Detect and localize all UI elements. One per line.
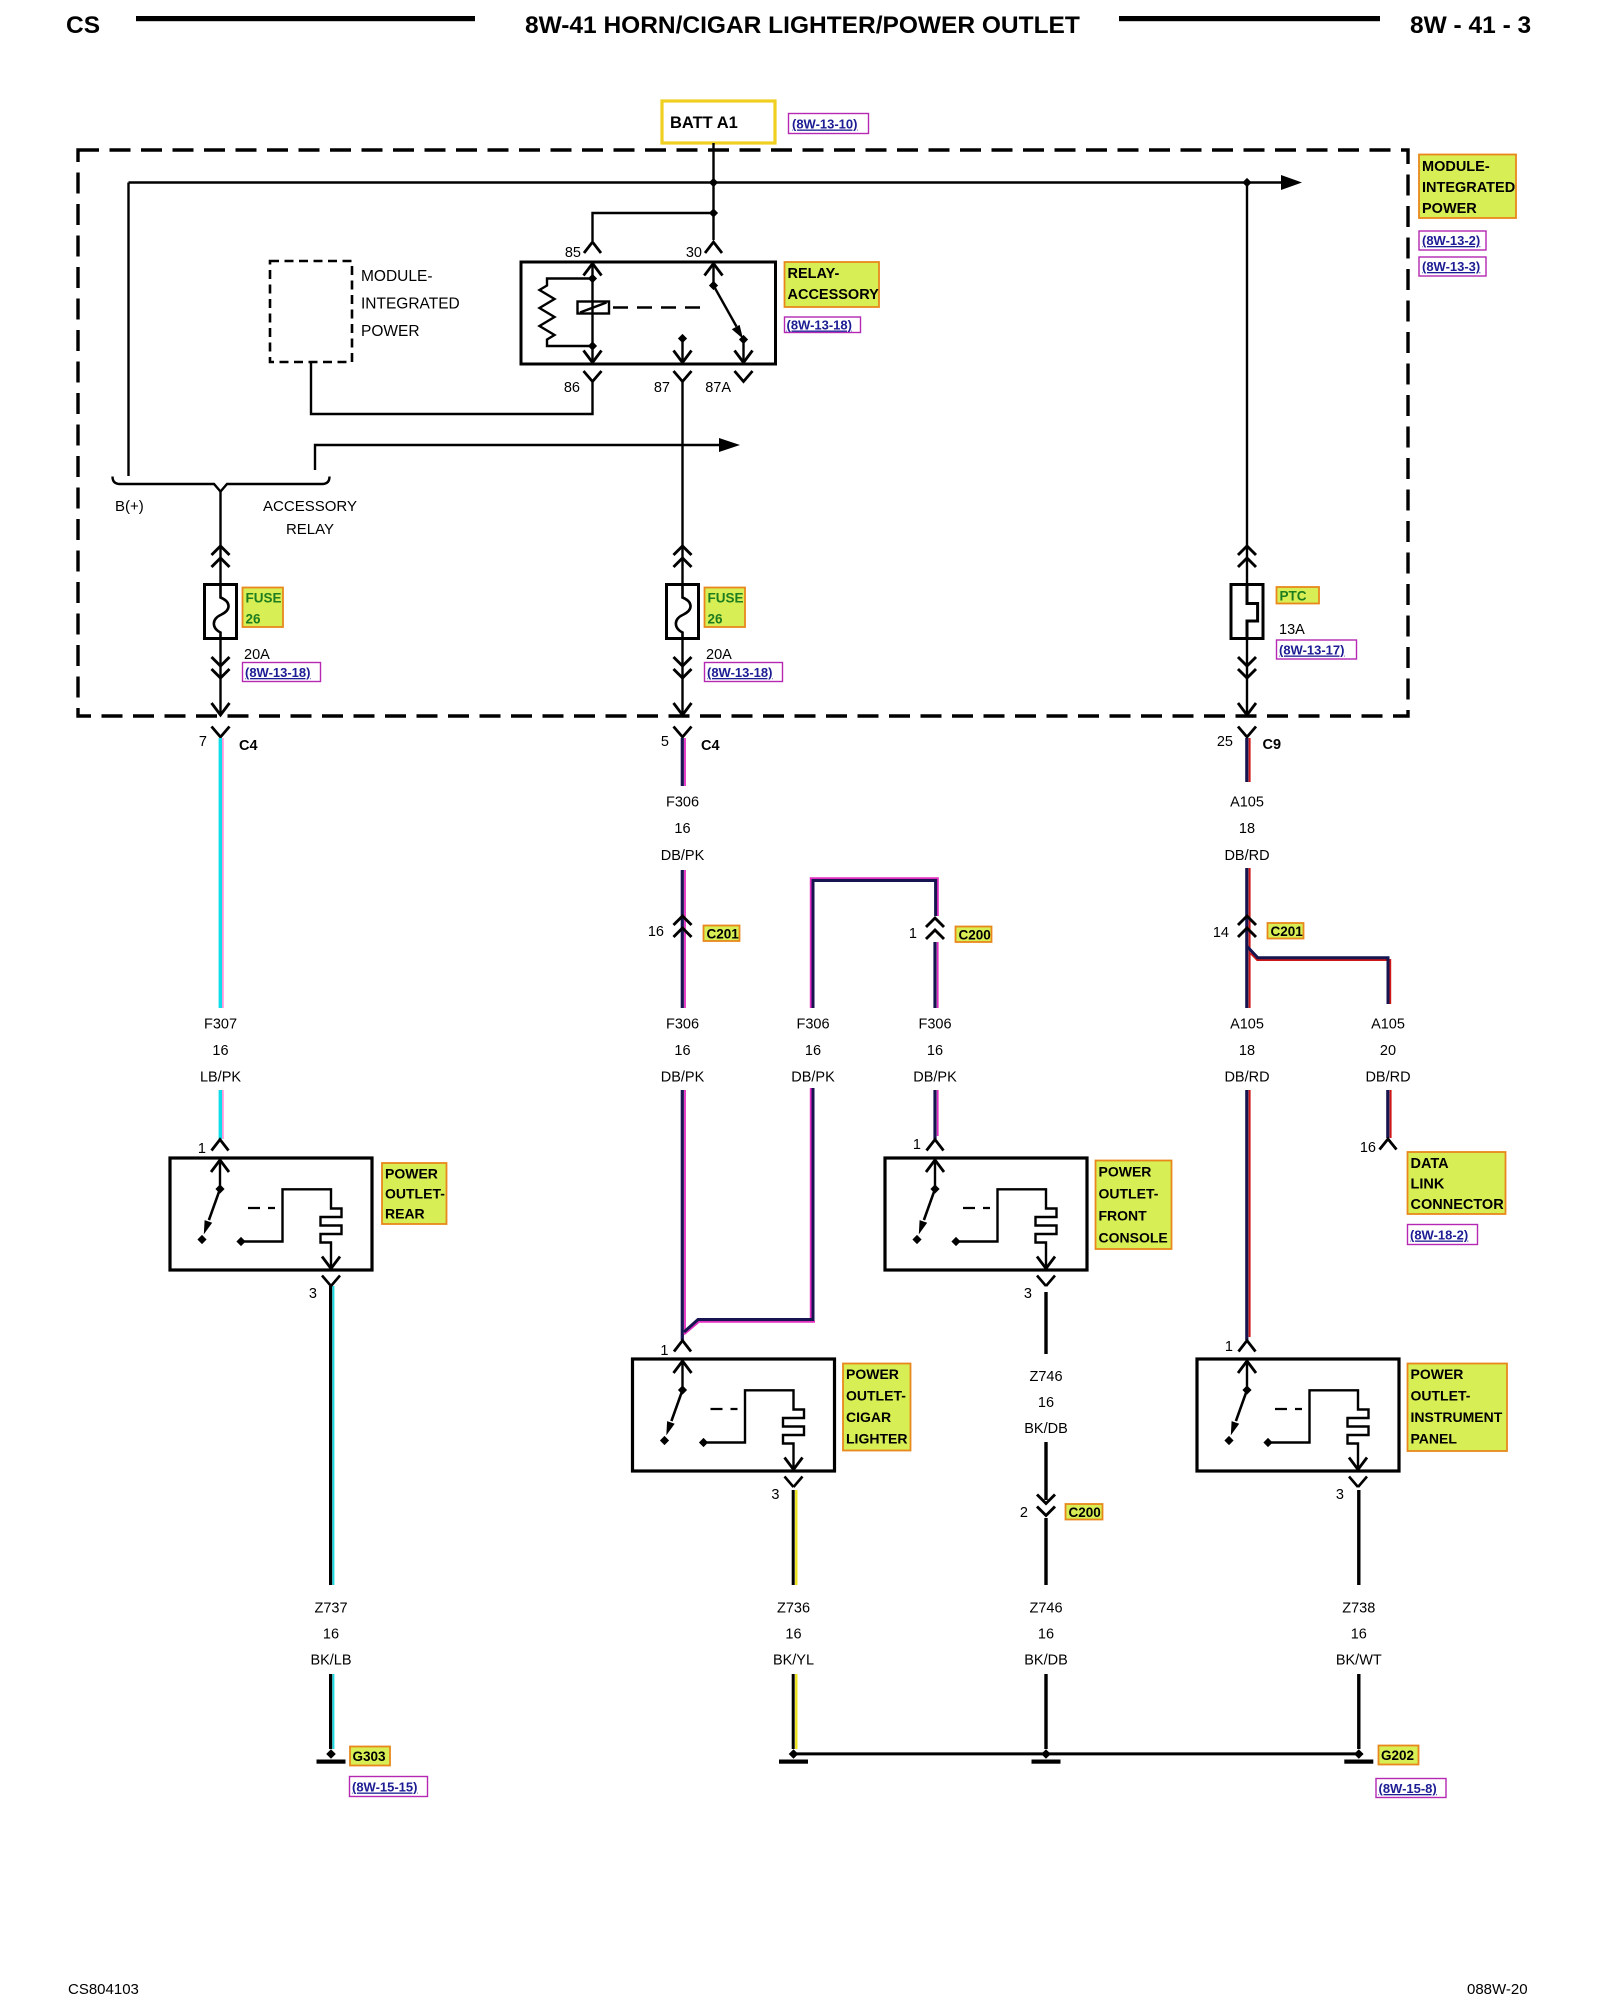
svg-text:16: 16 bbox=[674, 1043, 690, 1059]
svg-text:INTEGRATED: INTEGRATED bbox=[1422, 180, 1515, 196]
label FUSE 26 right bbox=[705, 588, 746, 628]
svg-text:LIGHTER: LIGHTER bbox=[846, 1431, 907, 1447]
svg-text:OUTLET-: OUTLET- bbox=[846, 1388, 906, 1404]
svg-text:BATT A1: BATT A1 bbox=[670, 114, 738, 132]
svg-text:86: 86 bbox=[564, 380, 580, 396]
relay pin 87 stub bbox=[678, 334, 687, 363]
svg-text:POWER: POWER bbox=[385, 1166, 438, 1182]
svg-text:POWER: POWER bbox=[1411, 1366, 1464, 1382]
connector pin 87 bbox=[654, 371, 692, 396]
svg-text:1: 1 bbox=[660, 1343, 668, 1359]
svg-text:(8W-13-18): (8W-13-18) bbox=[245, 665, 310, 680]
svg-text:C4: C4 bbox=[701, 738, 720, 754]
svg-text:RELAY: RELAY bbox=[286, 521, 334, 538]
relay coil resistor bbox=[540, 279, 593, 347]
svg-text:DATA: DATA bbox=[1411, 1156, 1450, 1172]
wire A105 DB/RD to instrument panel outlet bbox=[1247, 1090, 1250, 1340]
svg-text:16: 16 bbox=[1351, 1627, 1367, 1643]
svg-text:G202: G202 bbox=[1381, 1748, 1414, 1763]
svg-text:F306: F306 bbox=[918, 1017, 951, 1033]
svg-text:C200: C200 bbox=[1069, 1505, 1101, 1520]
label F307 16 LB/PK bbox=[200, 1017, 241, 1086]
label F306 16 DB/PK lower bbox=[661, 1017, 705, 1086]
link (8W-13-10) bbox=[789, 114, 869, 134]
wire branch to relay pin 85 bbox=[593, 213, 714, 241]
svg-text:G303: G303 bbox=[353, 1749, 387, 1764]
svg-text:Z738: Z738 bbox=[1342, 1601, 1375, 1617]
svg-text:LINK: LINK bbox=[1411, 1177, 1445, 1193]
brace B(+) / accessory relay bbox=[113, 477, 330, 492]
wire Z738 BK/WT lower bbox=[1357, 1674, 1360, 1749]
svg-text:13A: 13A bbox=[1279, 622, 1305, 638]
svg-text:FRONT: FRONT bbox=[1099, 1208, 1148, 1224]
connector in-line below PTC bbox=[1238, 657, 1256, 678]
wire Z746 BK/DB pin3 to label bbox=[1044, 1292, 1047, 1354]
svg-text:14: 14 bbox=[1213, 925, 1229, 941]
label Z746 16 BK/DB lower bbox=[1024, 1601, 1068, 1669]
label FUSE 26 left bbox=[243, 588, 284, 628]
label Z736 16 BK/YL bbox=[773, 1601, 814, 1669]
label MODULE-INTEGRATED POWER (inner) bbox=[361, 268, 460, 340]
module-integrated power boundary (dashed) bbox=[78, 150, 1408, 716]
svg-text:7: 7 bbox=[199, 734, 207, 750]
svg-text:1: 1 bbox=[1225, 1339, 1233, 1355]
power outlet front console bbox=[885, 1137, 1087, 1302]
connector in-line above PTC bbox=[1238, 546, 1256, 567]
svg-text:26: 26 bbox=[708, 612, 724, 627]
svg-text:8W-41 HORN/CIGAR LIGHTER/POWER: 8W-41 HORN/CIGAR LIGHTER/POWER OUTLET bbox=[525, 12, 1080, 39]
wire F307 LB/PK upper bbox=[220, 738, 223, 1008]
wire Z746 BK/DB lower2 bbox=[1044, 1674, 1047, 1749]
relay pin 86 exit arrow bbox=[584, 351, 602, 363]
relay pin 85 entry arrow bbox=[584, 264, 602, 363]
label POWER OUTLET-CIGAR LIGHTER bbox=[843, 1364, 911, 1451]
svg-text:FUSE: FUSE bbox=[708, 591, 744, 606]
relay pin 30 entry arrow bbox=[705, 264, 723, 286]
svg-text:(8W-13-17): (8W-13-17) bbox=[1279, 643, 1344, 658]
wire Z736 BK/YL lower bbox=[793, 1674, 796, 1749]
svg-text:3: 3 bbox=[1024, 1286, 1032, 1302]
svg-text:POWER: POWER bbox=[1422, 201, 1477, 217]
svg-text:PTC: PTC bbox=[1280, 589, 1307, 604]
relay coil junction top bbox=[588, 274, 597, 283]
svg-text:BK/DB: BK/DB bbox=[1024, 1653, 1068, 1669]
wire pin 87 down to fuse 26 bbox=[681, 382, 683, 585]
svg-text:25: 25 bbox=[1217, 734, 1233, 750]
svg-text:16: 16 bbox=[674, 821, 690, 837]
svg-text:1: 1 bbox=[913, 1137, 921, 1153]
wire B+ bus down to PTC bbox=[1246, 183, 1248, 585]
ground instrument panel G202 bbox=[1344, 1749, 1373, 1764]
svg-text:CS804103: CS804103 bbox=[68, 1981, 139, 1998]
svg-text:RELAY-: RELAY- bbox=[788, 266, 840, 282]
wire fuse right to connector C4 bbox=[674, 639, 692, 716]
svg-text:C4: C4 bbox=[239, 738, 258, 754]
power outlet rear bbox=[170, 1140, 372, 1303]
svg-text:(8W-13-3): (8W-13-3) bbox=[1422, 259, 1480, 274]
svg-text:CONNECTOR: CONNECTOR bbox=[1411, 1197, 1505, 1213]
label A105 18 DB/RD upper bbox=[1224, 795, 1269, 865]
svg-text:18: 18 bbox=[1239, 821, 1255, 837]
battery feed box BATT A1 bbox=[662, 101, 775, 143]
wire F306 DB/PK to cigar lighter bbox=[682, 1090, 685, 1340]
svg-text:C201: C201 bbox=[1271, 924, 1304, 939]
svg-text:(8W-13-10): (8W-13-10) bbox=[792, 117, 857, 132]
wire PTC to connector C9 bbox=[1238, 639, 1256, 716]
connector in-line below fuse 26 right bbox=[674, 657, 692, 678]
svg-text:A105: A105 bbox=[1371, 1017, 1405, 1033]
label POWER OUTLET-FRONT CONSOLE bbox=[1096, 1161, 1172, 1250]
svg-text:REAR: REAR bbox=[385, 1206, 425, 1222]
link (8W-13-2) bbox=[1419, 231, 1486, 250]
svg-text:87A: 87A bbox=[705, 380, 731, 396]
connector 7 C4 bbox=[199, 727, 258, 755]
label F306 16 DB/PK upper bbox=[661, 795, 705, 865]
relay RELAY-ACCESSORY box bbox=[521, 262, 776, 364]
fuse FUSE 26 left bbox=[205, 585, 237, 639]
svg-text:FUSE: FUSE bbox=[246, 591, 282, 606]
wire BATT A1 down to relay pin 30 bbox=[712, 143, 714, 240]
svg-text:DB/PK: DB/PK bbox=[791, 1070, 835, 1086]
svg-text:20A: 20A bbox=[706, 647, 732, 663]
connector 25 C9 bbox=[1217, 727, 1281, 754]
svg-text:ACCESSORY: ACCESSORY bbox=[788, 287, 880, 303]
svg-text:DB/PK: DB/PK bbox=[661, 1070, 705, 1086]
header rule left bbox=[136, 16, 475, 21]
connector pin 87A bbox=[705, 371, 752, 396]
svg-text:(8W-13-18): (8W-13-18) bbox=[707, 665, 772, 680]
label PTC bbox=[1277, 587, 1320, 604]
svg-text:20A: 20A bbox=[244, 647, 270, 663]
link (8W-15-8) bbox=[1376, 1779, 1446, 1798]
svg-text:INTEGRATED: INTEGRATED bbox=[361, 296, 460, 313]
node junction on B+ bus at x=713.5 bbox=[709, 178, 718, 187]
label DATA LINK CONNECTOR bbox=[1408, 1152, 1506, 1214]
module-integrated power inner dashed box bbox=[270, 261, 352, 362]
label MODULE-INTEGRATED POWER (right) bbox=[1419, 155, 1516, 219]
wire module box to pin 86 bbox=[311, 362, 593, 414]
svg-text:3: 3 bbox=[771, 1487, 779, 1503]
connector 1 C200 bbox=[909, 918, 992, 943]
svg-text:Z746: Z746 bbox=[1029, 1369, 1062, 1385]
relay pin 87 exit arrow bbox=[674, 351, 692, 363]
svg-text:BK/WT: BK/WT bbox=[1336, 1653, 1382, 1669]
wire branch cigar to front console bridge bbox=[684, 878, 938, 1334]
power outlet instrument panel bbox=[1197, 1339, 1399, 1503]
label G303 bbox=[350, 1747, 390, 1766]
svg-text:(8W-13-2): (8W-13-2) bbox=[1422, 233, 1480, 248]
label F306 16 DB/PK bridge right bbox=[913, 1017, 957, 1086]
connector 5 C4 bbox=[661, 727, 720, 755]
wire B+ bus horizontal with arrow bbox=[129, 175, 1303, 190]
svg-text:16: 16 bbox=[785, 1627, 801, 1643]
svg-text:F307: F307 bbox=[204, 1017, 237, 1033]
svg-text:3: 3 bbox=[1336, 1487, 1344, 1503]
svg-text:16: 16 bbox=[1360, 1140, 1376, 1156]
ground G303 bbox=[317, 1749, 346, 1764]
wire Z737 BK/LB lower bbox=[331, 1674, 334, 1749]
svg-text:16: 16 bbox=[927, 1043, 943, 1059]
svg-text:Z736: Z736 bbox=[777, 1601, 810, 1617]
relay coil box symbol bbox=[578, 302, 610, 314]
wire branch C201 to data link connector bbox=[1247, 947, 1390, 1005]
fuse FUSE 26 right bbox=[667, 585, 699, 639]
node junction on B+ bus at x=1247 bbox=[1242, 178, 1251, 187]
connector 2 C200 bbox=[1020, 1495, 1103, 1522]
svg-text:OUTLET-: OUTLET- bbox=[1099, 1186, 1159, 1202]
wire F306 DB/PK to front console bbox=[935, 942, 938, 1139]
link (8W-13-18) fuse left bbox=[243, 663, 321, 682]
link (8W-13-3) bbox=[1419, 257, 1486, 276]
svg-text:DB/PK: DB/PK bbox=[913, 1070, 957, 1086]
link (8W-15-15) bbox=[350, 1777, 428, 1797]
wire accessory relay output with arrow bbox=[315, 438, 740, 470]
svg-text:OUTLET-: OUTLET- bbox=[1411, 1388, 1471, 1404]
svg-text:C200: C200 bbox=[959, 928, 991, 943]
svg-text:CONSOLE: CONSOLE bbox=[1099, 1230, 1168, 1246]
connector pin 86 bbox=[564, 371, 602, 396]
label Z738 16 BK/WT bbox=[1336, 1601, 1382, 1669]
svg-text:B(+): B(+) bbox=[115, 498, 144, 515]
fuse PTC bbox=[1231, 585, 1263, 639]
svg-text:16: 16 bbox=[648, 924, 664, 940]
svg-text:BK/DB: BK/DB bbox=[1024, 1421, 1068, 1437]
wire F307 LB/PK lower bbox=[220, 1090, 223, 1139]
svg-text:CS: CS bbox=[66, 12, 100, 39]
svg-text:PANEL: PANEL bbox=[1411, 1431, 1458, 1447]
svg-text:2: 2 bbox=[1020, 1505, 1028, 1521]
link (8W-18-2) bbox=[1408, 1225, 1478, 1245]
svg-text:16: 16 bbox=[212, 1043, 228, 1059]
link (8W-13-17) bbox=[1277, 640, 1357, 659]
svg-text:(8W-15-15): (8W-15-15) bbox=[352, 1780, 417, 1795]
wire left B+ drop to accessory brace bbox=[127, 183, 129, 477]
svg-text:POWER: POWER bbox=[361, 323, 420, 340]
svg-text:DB/RD: DB/RD bbox=[1224, 848, 1269, 864]
svg-text:POWER: POWER bbox=[846, 1366, 899, 1382]
node junction at 30/85 branch bbox=[709, 208, 718, 217]
label Z746 16 BK/DB upper bbox=[1024, 1369, 1068, 1437]
link (8W-13-18) fuse right bbox=[705, 663, 783, 682]
wire F306 DB/PK mid bbox=[682, 870, 685, 1008]
connector pin 85 bbox=[565, 242, 601, 261]
relay switch arm bbox=[709, 281, 748, 363]
svg-text:A105: A105 bbox=[1230, 1017, 1264, 1033]
svg-text:LB/PK: LB/PK bbox=[200, 1070, 241, 1086]
connector in-line above fuse 26 left bbox=[212, 546, 230, 567]
svg-text:(8W-13-18): (8W-13-18) bbox=[787, 318, 852, 333]
svg-text:16: 16 bbox=[323, 1627, 339, 1643]
svg-text:F306: F306 bbox=[666, 795, 699, 811]
svg-text:(8W-18-2): (8W-18-2) bbox=[1410, 1228, 1468, 1243]
power outlet cigar lighter bbox=[633, 1341, 835, 1504]
wire Z736 BK/YL upper bbox=[793, 1490, 796, 1585]
svg-text:(8W-15-8): (8W-15-8) bbox=[1379, 1781, 1437, 1796]
connector pin 30 bbox=[686, 242, 722, 261]
ground front console bbox=[1032, 1749, 1061, 1764]
wire A105 20 DB/RD to data link connector bbox=[1388, 1090, 1391, 1138]
svg-text:BK/LB: BK/LB bbox=[310, 1653, 351, 1669]
label POWER OUTLET-REAR bbox=[382, 1163, 447, 1224]
label ACCESSORY RELAY bbox=[263, 498, 357, 538]
wire fuse left to connector C4 bbox=[212, 639, 230, 716]
wire A105 DB/RD upper bbox=[1247, 738, 1250, 782]
svg-text:16: 16 bbox=[805, 1043, 821, 1059]
svg-text:5: 5 bbox=[661, 734, 669, 750]
svg-text:MODULE-: MODULE- bbox=[1422, 159, 1490, 175]
svg-text:1: 1 bbox=[198, 1141, 206, 1157]
link (8W-13-18) relay bbox=[785, 317, 861, 333]
wire Z746 BK/DB mid bbox=[1044, 1442, 1047, 1500]
label G202 bbox=[1379, 1746, 1419, 1765]
svg-text:F306: F306 bbox=[796, 1017, 829, 1033]
svg-text:DB/RD: DB/RD bbox=[1365, 1070, 1410, 1086]
svg-text:16: 16 bbox=[1038, 1395, 1054, 1411]
relay actuator dashed link bbox=[613, 306, 700, 308]
svg-text:INSTRUMENT: INSTRUMENT bbox=[1411, 1409, 1503, 1425]
svg-text:MODULE-: MODULE- bbox=[361, 268, 432, 285]
svg-text:20: 20 bbox=[1380, 1043, 1396, 1059]
svg-text:F306: F306 bbox=[666, 1017, 699, 1033]
svg-text:BK/YL: BK/YL bbox=[773, 1653, 814, 1669]
svg-text:8W - 41 - 3: 8W - 41 - 3 bbox=[1410, 12, 1531, 39]
svg-text:POWER: POWER bbox=[1099, 1164, 1152, 1180]
label Z737 16 BK/LB bbox=[310, 1601, 351, 1669]
svg-text:18: 18 bbox=[1239, 1043, 1255, 1059]
svg-text:DB/RD: DB/RD bbox=[1224, 1070, 1269, 1086]
relay coil junction bottom bbox=[588, 341, 597, 350]
svg-text:30: 30 bbox=[686, 245, 702, 261]
relay pin 87A exit arrow bbox=[735, 351, 753, 363]
connector 16 data link bbox=[1360, 1139, 1397, 1156]
label F306 16 DB/PK bridge left bbox=[791, 1017, 835, 1086]
connector 14 C201 bbox=[1213, 916, 1304, 941]
svg-text:26: 26 bbox=[246, 612, 262, 627]
wire F306 DB/PK upper bbox=[682, 738, 685, 786]
svg-text:Z746: Z746 bbox=[1029, 1601, 1062, 1617]
label RELAY-ACCESSORY bbox=[785, 262, 880, 307]
label A105 18 DB/RD lower bbox=[1224, 1017, 1269, 1086]
svg-text:CIGAR: CIGAR bbox=[846, 1409, 891, 1425]
svg-text:ACCESSORY: ACCESSORY bbox=[263, 498, 357, 515]
svg-text:16: 16 bbox=[1038, 1627, 1054, 1643]
svg-text:OUTLET-: OUTLET- bbox=[385, 1186, 445, 1202]
wire brace to fuse 26 left bbox=[219, 492, 221, 585]
svg-text:Z737: Z737 bbox=[314, 1601, 347, 1617]
svg-text:1: 1 bbox=[909, 926, 917, 942]
svg-text:DB/PK: DB/PK bbox=[661, 848, 705, 864]
wire A105 DB/RD mid bbox=[1247, 868, 1250, 1008]
label A105 20 DB/RD bbox=[1365, 1017, 1410, 1086]
connector in-line below fuse 26 left bbox=[212, 657, 230, 678]
connector in-line above fuse 26 right bbox=[674, 546, 692, 567]
wire Z737 BK/LB upper bbox=[331, 1286, 334, 1585]
svg-text:088W-20: 088W-20 bbox=[1467, 1981, 1528, 1998]
ground cigar lighter bbox=[779, 1749, 808, 1764]
svg-text:3: 3 bbox=[309, 1286, 317, 1302]
wire Z746 BK/DB lower1 bbox=[1044, 1518, 1047, 1585]
svg-text:87: 87 bbox=[654, 380, 670, 396]
svg-text:C201: C201 bbox=[707, 927, 740, 942]
svg-text:C9: C9 bbox=[1263, 737, 1282, 753]
svg-text:A105: A105 bbox=[1230, 795, 1264, 811]
wire Z738 BK/WT upper bbox=[1357, 1490, 1360, 1585]
connector 16 C201 bbox=[648, 916, 740, 942]
label POWER OUTLET-INSTRUMENT PANEL bbox=[1408, 1364, 1508, 1452]
ground bus wire bbox=[794, 1752, 1359, 1755]
svg-text:85: 85 bbox=[565, 245, 581, 261]
header rule right bbox=[1119, 16, 1380, 21]
